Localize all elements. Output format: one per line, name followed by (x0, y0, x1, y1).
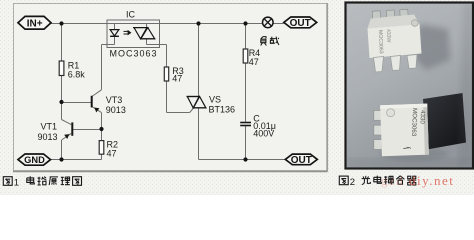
svg-text:6.8k: 6.8k (68, 70, 86, 80)
svg-text:400V: 400V (253, 129, 274, 139)
svg-text:BT136: BT136 (209, 105, 236, 115)
svg-text:GND: GND (24, 155, 45, 165)
svg-text:47: 47 (249, 57, 259, 67)
svg-text:MOC3063: MOC3063 (410, 108, 418, 137)
svg-text:VT1: VT1 (41, 122, 58, 132)
svg-text:OUT: OUT (290, 18, 311, 29)
svg-text:diy.net: diy.net (409, 173, 454, 188)
svg-text:9013: 9013 (106, 105, 126, 115)
svg-text:MOC3063: MOC3063 (110, 48, 157, 58)
svg-text:433W: 433W (385, 29, 391, 43)
svg-text:1: 1 (14, 177, 19, 188)
svg-text:gzd: gzd (381, 173, 404, 188)
svg-text:4330: 4330 (419, 110, 426, 125)
svg-text:9013: 9013 (38, 132, 58, 142)
svg-text:VS: VS (209, 95, 221, 105)
svg-text:OUT: OUT (291, 155, 312, 166)
svg-text:2: 2 (350, 177, 355, 188)
svg-text:VT3: VT3 (106, 95, 123, 105)
svg-text:IN+: IN+ (27, 18, 43, 29)
svg-text:47: 47 (172, 73, 182, 83)
svg-text:MOC3063: MOC3063 (377, 30, 384, 54)
svg-text:47: 47 (107, 149, 117, 159)
svg-text:IC: IC (126, 10, 136, 20)
